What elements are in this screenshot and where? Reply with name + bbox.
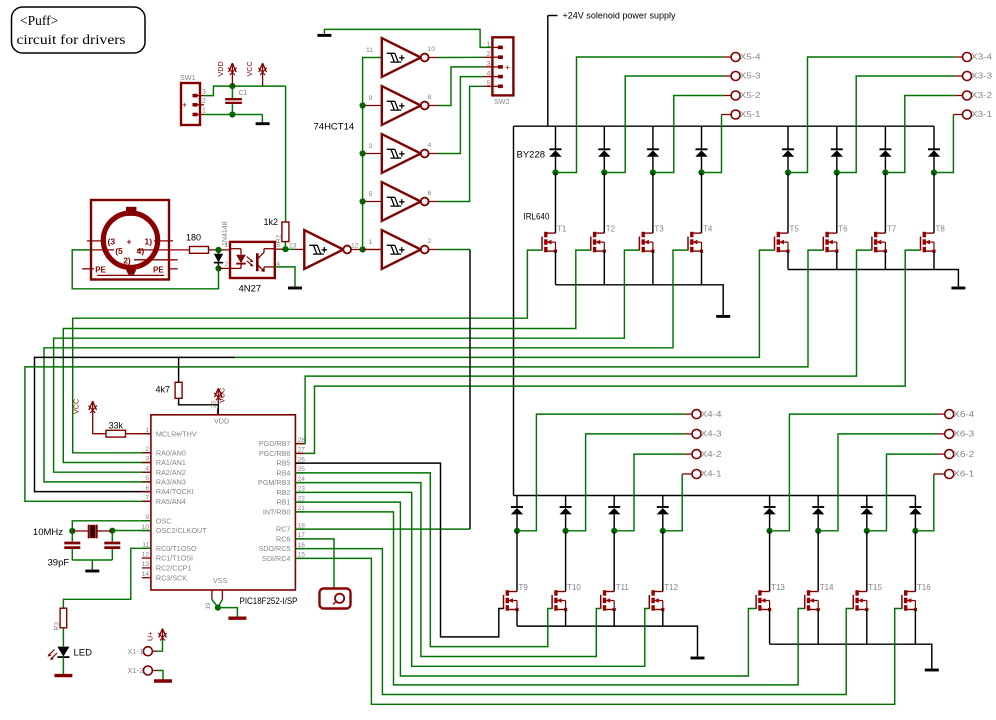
svg-text:23: 23 bbox=[298, 486, 306, 493]
svg-text:VSS: VSS bbox=[213, 576, 228, 585]
wire +24V rail drop to lower rail bbox=[513, 126, 515, 495]
svg-text:74HCT14: 74HCT14 bbox=[314, 122, 355, 133]
svg-text:1: 1 bbox=[369, 239, 373, 246]
svg-text:LED: LED bbox=[74, 647, 93, 658]
svg-text:<Puff>: <Puff> bbox=[20, 13, 58, 28]
svg-text:3: 3 bbox=[202, 89, 206, 96]
op-to 4N27 light arrows bbox=[247, 257, 253, 262]
svg-text:18: 18 bbox=[298, 522, 306, 529]
wire net RB1 PIC pin22 to T gate bbox=[295, 502, 756, 676]
ic U1 pin 28 right bbox=[295, 443, 304, 445]
node T9 drain junction bbox=[514, 528, 520, 534]
ic U1 pin 10 left bbox=[142, 530, 151, 532]
ic U1 pin 6 left bbox=[142, 491, 151, 493]
svg-text:X1-2: X1-2 bbox=[128, 666, 144, 675]
wire T14 source bbox=[817, 610, 819, 645]
diode BY228 D6 bbox=[831, 148, 843, 150]
wire drain column T14 lower bbox=[817, 496, 819, 508]
svg-text:1: 1 bbox=[145, 427, 149, 434]
wire upper-left source bus bbox=[556, 285, 724, 315]
node T14 drain junction bbox=[815, 528, 821, 534]
supply VCC symbol near PIC VDD bbox=[217, 390, 219, 405]
svg-text:T16: T16 bbox=[917, 583, 931, 592]
resistor 33k bbox=[106, 430, 126, 437]
wire bus to gate 5 input bbox=[363, 201, 382, 203]
svg-text:26: 26 bbox=[298, 456, 306, 463]
wire VSS to ground bbox=[218, 608, 238, 617]
connector MIDI pin 3 line bbox=[87, 240, 106, 242]
connector SW2 pin 2 bbox=[498, 55, 503, 59]
node gate A input bbox=[282, 246, 288, 252]
connector MIDI pin labels bbox=[95, 237, 164, 275]
transistor T9 IRL640 bbox=[503, 595, 505, 609]
ground near C1 bbox=[256, 122, 270, 125]
ic U1 pin 15 right bbox=[295, 557, 304, 559]
transistor T16 IRL640 bbox=[901, 595, 903, 609]
svg-text:X6-2: X6-2 bbox=[953, 450, 975, 459]
jumper SJ body bbox=[320, 589, 351, 609]
svg-text:12: 12 bbox=[351, 243, 359, 250]
wire T9 to X4-4 bbox=[517, 414, 685, 531]
ic U1 pin 16 right bbox=[295, 548, 304, 550]
connector X4-2 bbox=[692, 450, 701, 459]
svg-text:X5-2: X5-2 bbox=[740, 91, 762, 100]
ic U1 pin8 stub bbox=[221, 590, 223, 600]
ic U1 PIC18F252 body bbox=[151, 415, 296, 590]
svg-text:24: 24 bbox=[298, 476, 306, 483]
wire T2 to X5-3 bbox=[604, 76, 723, 173]
svg-text:19: 19 bbox=[205, 602, 212, 609]
svg-text:X6-3: X6-3 bbox=[953, 430, 975, 439]
ground X1-2 bbox=[154, 679, 172, 682]
diode BY228 D7 bbox=[879, 148, 891, 150]
wire X1-1 to U+ bbox=[152, 650, 157, 652]
wire RC6 pin17 to jumper bbox=[295, 539, 334, 589]
wire bus to gate 9 input bbox=[363, 105, 382, 107]
svg-text:11: 11 bbox=[366, 47, 373, 54]
svg-text:T6: T6 bbox=[838, 225, 848, 234]
wire VDD node to 1k2 feeder bbox=[285, 86, 287, 222]
connector SW2 body bbox=[492, 37, 513, 95]
node bus gate 5 bbox=[360, 198, 366, 204]
wire SW1 pin3 to VDD node bbox=[204, 86, 286, 96]
svg-text:RA0/AN0: RA0/AN0 bbox=[156, 448, 186, 457]
svg-text:PGD/RB7: PGD/RB7 bbox=[259, 439, 291, 448]
wire drain column T9 lower bbox=[516, 496, 518, 508]
wire gate A output to gate F input bbox=[351, 249, 382, 251]
wire caps to ground bbox=[72, 559, 112, 561]
svg-text:10: 10 bbox=[142, 524, 150, 531]
connector MIDI DIN bottom tab bbox=[126, 270, 136, 275]
svg-text:OSC2/CLKOUT: OSC2/CLKOUT bbox=[156, 526, 207, 535]
svg-text:4: 4 bbox=[145, 465, 149, 472]
svg-text:5: 5 bbox=[369, 191, 373, 198]
svg-text:X1-1: X1-1 bbox=[128, 647, 144, 656]
resistor R3 bbox=[60, 608, 67, 628]
node crystal right bbox=[109, 528, 115, 534]
wire net RB5 PIC pin26 to T gate bbox=[295, 463, 503, 637]
wire drain column T12 lower bbox=[662, 496, 664, 508]
supply U+ symbol bbox=[162, 631, 164, 641]
wire 1k2 bottom bbox=[284, 242, 286, 250]
connector X1-1 bbox=[143, 647, 152, 656]
svg-text:1: 1 bbox=[487, 41, 491, 48]
svg-text:VCC: VCC bbox=[245, 61, 254, 76]
wire +24V lower rail bbox=[514, 495, 916, 497]
capacitor C1 bbox=[231, 86, 233, 98]
supply VCC symbol top bbox=[262, 65, 264, 86]
wire drain column T5 upper bbox=[787, 126, 789, 149]
svg-text:(5: (5 bbox=[115, 246, 123, 256]
svg-text:RC7: RC7 bbox=[276, 525, 290, 534]
svg-text:T3: T3 bbox=[654, 225, 664, 234]
node T12 drain junction bbox=[660, 528, 666, 534]
wire drain column T1 upper bbox=[555, 126, 557, 149]
svg-text:3: 3 bbox=[369, 143, 373, 150]
svg-text:T13: T13 bbox=[771, 583, 785, 592]
op-amp gate A 74HCT14 13-12 bbox=[304, 230, 343, 269]
connector X3-2 bbox=[963, 91, 972, 100]
ic U1 pin 17 right bbox=[295, 538, 304, 540]
ic U1 pin 3 left bbox=[142, 462, 151, 464]
svg-text:VCC: VCC bbox=[218, 388, 227, 403]
transistor T13 IRL640 bbox=[755, 595, 757, 609]
wire net RB7 PIC pin28 to T7 gate bbox=[295, 250, 872, 444]
wire T11 to X4-2 bbox=[614, 454, 685, 531]
svg-text:9: 9 bbox=[145, 514, 149, 521]
svg-text:T12: T12 bbox=[664, 583, 678, 592]
wire T12 source bbox=[662, 610, 664, 627]
wire net RA2 PIC pin4 to T3 gate bbox=[54, 250, 640, 472]
wire net RB4 PIC pin25 to T gate bbox=[295, 473, 552, 647]
svg-text:RB1: RB1 bbox=[276, 498, 290, 507]
wire T7 to X3-2 bbox=[885, 96, 955, 173]
connector MIDI DIN body bbox=[91, 200, 169, 280]
wire net RB6 PIC pin27 to T8 gate bbox=[295, 250, 920, 453]
wire T8 source bbox=[933, 251, 935, 269]
resistor 180 bbox=[190, 247, 209, 254]
diode BY228 D3 bbox=[647, 148, 659, 150]
node crystal left bbox=[69, 528, 75, 534]
wire drain column T11 lower bbox=[613, 496, 615, 508]
svg-text:7: 7 bbox=[145, 495, 149, 502]
svg-text:X3-4: X3-4 bbox=[971, 53, 993, 62]
wire drain column T2 upper bbox=[603, 126, 605, 149]
svg-text:1): 1) bbox=[145, 237, 153, 247]
node bus gate 9 bbox=[360, 102, 366, 108]
wire R180 to diode node bbox=[209, 249, 231, 251]
wire diode node to optocoupler pin2 bbox=[219, 267, 231, 269]
wire MIDI pin5 loop bbox=[72, 250, 218, 289]
node T13 drain junction bbox=[767, 528, 773, 534]
ic U1 pin 9 left bbox=[142, 520, 151, 522]
diode BY228 D8 bbox=[928, 148, 940, 150]
wire T12 to X4-1 bbox=[663, 474, 682, 531]
transistor T10 IRL640 bbox=[551, 595, 553, 609]
svg-text:T1: T1 bbox=[557, 225, 567, 234]
wire T10 source bbox=[565, 610, 567, 627]
ic U1 pin 18 right bbox=[295, 528, 304, 530]
svg-text:9: 9 bbox=[369, 95, 373, 102]
svg-text:circuit for drivers: circuit for drivers bbox=[17, 32, 126, 47]
wire OSC pin9 bbox=[72, 521, 151, 531]
svg-text:+24V solenoid power supply: +24V solenoid power supply bbox=[563, 11, 676, 22]
svg-text:(3: (3 bbox=[108, 237, 116, 247]
svg-text:6: 6 bbox=[145, 485, 149, 492]
wire T5 to X3-4 bbox=[788, 57, 955, 173]
wire RC0 pin11 to R3 bbox=[63, 548, 150, 608]
transistor T6 IRL640 bbox=[822, 237, 824, 251]
diode D16 lower bbox=[909, 506, 921, 508]
node T8 drain junction bbox=[931, 169, 937, 175]
connector X5-1 bbox=[731, 110, 740, 119]
svg-text:RA2/AN2: RA2/AN2 bbox=[156, 468, 186, 477]
connector SW2 pin 5 bbox=[498, 85, 503, 89]
svg-text:13: 13 bbox=[142, 561, 150, 568]
node VSS junction bbox=[215, 605, 221, 611]
connector SW1 body bbox=[181, 83, 200, 125]
svg-text:RA3/AN3: RA3/AN3 bbox=[156, 478, 186, 487]
wire 4k7 to VDD pin bbox=[179, 398, 219, 415]
svg-text:14: 14 bbox=[142, 571, 150, 578]
svg-text:SDI/RC4: SDI/RC4 bbox=[262, 554, 290, 563]
node T16 drain junction bbox=[912, 528, 918, 534]
op-to 4N27 LED bbox=[230, 248, 241, 250]
diode BY228 D1 bbox=[550, 148, 562, 150]
svg-text:X4-4: X4-4 bbox=[701, 410, 723, 419]
svg-text:VCC: VCC bbox=[72, 399, 81, 414]
svg-text:RC3/SCK: RC3/SCK bbox=[156, 573, 187, 582]
svg-text:SW1: SW1 bbox=[180, 73, 196, 82]
svg-text:RA5/AN4: RA5/AN4 bbox=[156, 497, 186, 506]
ic U1 pin 24 right bbox=[295, 482, 304, 484]
svg-text:2: 2 bbox=[225, 261, 229, 268]
resistor 1k2 bbox=[282, 222, 289, 242]
ic U1 pin 11 left bbox=[142, 547, 151, 549]
transistor T3 IRL640 bbox=[638, 237, 640, 251]
svg-text:C1: C1 bbox=[239, 90, 248, 97]
svg-text:T5: T5 bbox=[790, 225, 800, 234]
connector SW2 pin 4 bbox=[498, 75, 503, 79]
node T5 drain junction bbox=[785, 169, 791, 175]
node T3 drain junction bbox=[650, 169, 656, 175]
title frame bbox=[12, 7, 146, 53]
supply VCC symbol left bbox=[92, 403, 94, 416]
wire X1-2 to ground bbox=[152, 670, 157, 672]
jumper SJ pad bbox=[335, 594, 344, 603]
connector SW2 pin 1 bbox=[498, 46, 503, 50]
wire VCC to 33k bbox=[93, 416, 106, 434]
connector X3-1 bbox=[963, 110, 972, 119]
svg-text:MCLR#/THV: MCLR#/THV bbox=[156, 429, 197, 438]
wire T6 source bbox=[836, 251, 838, 269]
svg-text:10MHz: 10MHz bbox=[33, 527, 63, 538]
svg-text:+: + bbox=[182, 100, 187, 110]
svg-text:2: 2 bbox=[487, 51, 491, 58]
wire T13 to X6-4 bbox=[770, 414, 938, 531]
svg-text:27: 27 bbox=[298, 447, 306, 454]
wire OSC2 pin10 bbox=[112, 530, 151, 532]
svg-text:X6-1: X6-1 bbox=[953, 470, 975, 479]
op-amp gate 74HCT14 11-10 bbox=[382, 38, 421, 77]
ic U1 pin 1 left bbox=[142, 433, 151, 435]
op-amp gate 74HCT14 3-4 bbox=[382, 134, 421, 173]
svg-text:X3-3: X3-3 bbox=[971, 72, 993, 81]
svg-text:21: 21 bbox=[298, 505, 306, 512]
connector MIDI DIN bottom inner line bbox=[97, 274, 164, 276]
wire T16 to X6-1 bbox=[915, 474, 933, 531]
transistor T7 IRL640 bbox=[871, 237, 873, 251]
wire T4 source bbox=[701, 251, 703, 285]
node diode anode bbox=[215, 247, 221, 253]
diode LED arrows bbox=[49, 650, 55, 656]
connector X1-2 bbox=[143, 666, 152, 675]
diode BY228 D5 bbox=[782, 148, 794, 150]
wire gate 10 output to SW2 pin2 bbox=[429, 57, 438, 59]
capacitor 39pF right bbox=[111, 531, 113, 542]
svg-text:1k2: 1k2 bbox=[264, 217, 279, 227]
svg-text:T7: T7 bbox=[887, 225, 897, 234]
wire gate 8 output to SW2 pin3 bbox=[429, 105, 438, 107]
wire net RC5 PIC pin16 to T gate bbox=[295, 549, 853, 695]
svg-text:5: 5 bbox=[487, 80, 491, 87]
svg-text:VDD: VDD bbox=[214, 417, 229, 426]
diode D10 lower bbox=[560, 506, 572, 508]
wire drain column T13 lower bbox=[769, 496, 771, 508]
svg-text:PGM/RB3: PGM/RB3 bbox=[258, 478, 290, 487]
wire drain column T10 lower bbox=[565, 496, 567, 508]
wire T9 source bbox=[516, 610, 518, 627]
connector SW2 pin 3 bbox=[498, 65, 503, 69]
connector X5-3 bbox=[731, 72, 740, 81]
svg-text:13: 13 bbox=[289, 243, 297, 250]
svg-text:2: 2 bbox=[428, 238, 432, 245]
wire net RB3 PIC pin24 to T gate bbox=[295, 483, 600, 657]
connector X3-4 bbox=[963, 53, 972, 62]
wire 4N27 pin5 to gate input bbox=[275, 248, 286, 250]
transistor T14 IRL640 bbox=[804, 595, 806, 609]
svg-text:RC1/T1OSI: RC1/T1OSI bbox=[156, 554, 193, 563]
svg-text:T14: T14 bbox=[820, 583, 834, 592]
node C1 ground junction bbox=[229, 111, 235, 117]
node T2 drain junction bbox=[601, 169, 607, 175]
wire T11 source bbox=[613, 610, 615, 627]
node T10 drain junction bbox=[563, 528, 569, 534]
connector X3-3 bbox=[963, 72, 972, 81]
wire SW1 pin1 to ground node bbox=[204, 114, 262, 116]
ic U1 pin 2 left bbox=[142, 452, 151, 454]
transistor T11 IRL640 bbox=[600, 595, 602, 609]
wire T3 source bbox=[652, 251, 654, 285]
ic U1 pin 4 left bbox=[142, 471, 151, 473]
svg-text:RC2/CCP1: RC2/CCP1 bbox=[156, 564, 192, 573]
wire net RB0 PIC pin21 to T gate bbox=[295, 512, 804, 685]
crystal 10MHz bbox=[72, 530, 88, 532]
capacitor 39pF left bbox=[71, 531, 73, 542]
wire bus to gate 1 input bbox=[363, 249, 382, 251]
connector MIDI PE line right bbox=[168, 268, 178, 270]
svg-text:2: 2 bbox=[202, 98, 206, 105]
wire drain column T15 lower bbox=[866, 496, 868, 508]
ic U1 pin 27 right bbox=[295, 452, 304, 454]
wire MIDI pin4 to R 180 bbox=[173, 249, 190, 251]
svg-text:PE: PE bbox=[153, 265, 164, 274]
svg-text:X3-1: X3-1 bbox=[971, 110, 993, 119]
wire drain column T16 lower bbox=[914, 496, 916, 508]
svg-text:X5-4: X5-4 bbox=[740, 53, 762, 62]
svg-text:RA4/TOCKI: RA4/TOCKI bbox=[156, 487, 194, 496]
svg-text:28: 28 bbox=[298, 437, 306, 444]
ground upper-right bank bbox=[951, 287, 965, 290]
wire gate 4 output to SW2 pin4 bbox=[429, 153, 438, 155]
svg-text:VDD: VDD bbox=[216, 61, 225, 76]
diode LED bbox=[57, 647, 69, 657]
svg-text:RC6: RC6 bbox=[276, 535, 290, 544]
wire lower-right source bus bbox=[770, 644, 932, 669]
ic U1 pin 23 right bbox=[295, 491, 304, 493]
connector X5-2 bbox=[731, 91, 740, 100]
svg-text:SDO/RC5: SDO/RC5 bbox=[258, 544, 290, 553]
svg-text:33k: 33k bbox=[109, 421, 124, 431]
diode D9 lower bbox=[511, 506, 523, 508]
wire drain column T3 upper bbox=[652, 126, 654, 149]
wire LED to ground bbox=[62, 657, 64, 674]
svg-text:T2: T2 bbox=[606, 225, 616, 234]
connector MIDI pin 1 line bbox=[154, 240, 173, 242]
diode D13 lower bbox=[764, 506, 776, 508]
wire 4N27 pin4 to ground bbox=[275, 267, 295, 287]
svg-text:R2: R2 bbox=[276, 234, 283, 243]
op-amp gate 74HCT14 5-6 bbox=[382, 182, 421, 221]
node T15 drain junction bbox=[864, 528, 870, 534]
svg-text:8: 8 bbox=[428, 94, 432, 101]
resistor 4k7 bbox=[175, 382, 182, 398]
diode D11 lower bbox=[608, 506, 620, 508]
node T1 drain junction bbox=[552, 169, 558, 175]
wire T7 source bbox=[884, 251, 886, 269]
svg-text:2): 2) bbox=[123, 256, 131, 266]
connector MIDI DIN ring bbox=[103, 213, 157, 267]
connector MIDI pin 2 line bbox=[134, 259, 178, 261]
ground VSS bbox=[228, 617, 246, 620]
svg-text:1: 1 bbox=[202, 108, 206, 115]
svg-text:T9: T9 bbox=[519, 583, 529, 592]
svg-text:25: 25 bbox=[298, 466, 306, 473]
svg-text:OSC: OSC bbox=[156, 516, 172, 525]
svg-text:4: 4 bbox=[428, 142, 432, 149]
node diode cathode bbox=[215, 265, 221, 271]
svg-text:RB4: RB4 bbox=[276, 469, 290, 478]
svg-text:R3: R3 bbox=[54, 622, 61, 631]
transistor T1 IRL640 bbox=[541, 237, 543, 251]
ic U1 pin 22 right bbox=[295, 501, 304, 503]
wire net RA1 PIC pin3 to T2 gate bbox=[63, 250, 591, 462]
connector X6-3 bbox=[945, 429, 954, 438]
connector SW1 pin 1 bbox=[193, 113, 198, 117]
svg-text:4): 4) bbox=[137, 246, 145, 256]
ground LED bbox=[54, 674, 72, 677]
svg-text:11: 11 bbox=[142, 542, 149, 549]
wire drain column T4 upper bbox=[701, 126, 703, 149]
wire ground stem near C1 bbox=[261, 115, 263, 123]
svg-text:17: 17 bbox=[298, 532, 306, 539]
svg-text:T15: T15 bbox=[868, 583, 882, 592]
svg-text:RB5: RB5 bbox=[276, 459, 290, 468]
wire net RB2 PIC pin23 to T gate bbox=[295, 492, 649, 666]
svg-text:1: 1 bbox=[225, 242, 229, 249]
wire net RC4 PIC pin15 to T gate bbox=[295, 558, 902, 704]
svg-text:3: 3 bbox=[487, 61, 491, 68]
